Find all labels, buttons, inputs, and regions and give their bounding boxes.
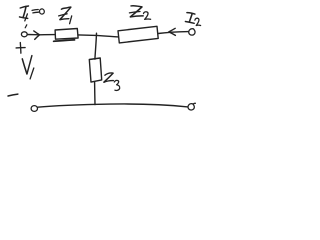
stray pen tick above terminal	[25, 25, 27, 28]
label Z3	[104, 73, 120, 90]
arrow I1 direction (into network)	[27, 31, 39, 40]
label Z1	[59, 7, 72, 24]
bottom terminal left (open circle)	[31, 106, 37, 112]
impedance Z3 (box)	[89, 58, 101, 82]
bottom terminal right (open circle)	[188, 103, 195, 110]
impedance Z2 (box)	[118, 26, 158, 43]
terminal port 2 (top-right, open circle)	[189, 29, 195, 35]
wire: Z3 down to bottom rail	[94, 82, 96, 104]
wire: node A to Z2	[96, 35, 118, 37]
impedance Z1 (box)	[55, 29, 78, 40]
wire: Z1 to node A	[78, 34, 96, 37]
wire: Z2 to terminal port 2, with arrow I2 pointing left	[158, 28, 188, 35]
wire: arrow to Z1	[40, 34, 55, 36]
label Z2	[129, 6, 150, 20]
wire: node A down to Z3	[95, 33, 97, 59]
bottom rail wire	[38, 104, 188, 107]
voltage V1: plus sign	[16, 43, 25, 54]
terminal port 1 (top-left, open circle)	[21, 32, 27, 37]
voltage V1: label V1	[22, 56, 34, 79]
heavy retrace under Z1 bottom edge	[54, 40, 75, 41]
label I1 = 0	[20, 6, 45, 21]
label I2	[185, 13, 200, 26]
voltage V1: minus sign	[8, 94, 18, 96]
